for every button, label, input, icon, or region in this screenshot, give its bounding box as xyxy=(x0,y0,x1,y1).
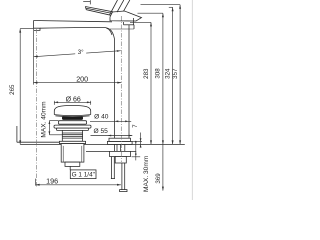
mounting nut xyxy=(110,151,131,156)
arrows MAX40 xyxy=(49,121,51,124)
svg-text:7: 7 xyxy=(132,124,139,128)
dim 200 xyxy=(34,82,122,84)
deck underside xyxy=(86,151,136,153)
drain plate 1 xyxy=(58,121,86,125)
arrows 265 xyxy=(19,29,21,33)
svg-text:265: 265 xyxy=(9,84,16,95)
dimension graphics xyxy=(20,5,180,191)
drain seal (dark) xyxy=(62,116,83,120)
centerline aerator xyxy=(36,29,38,187)
svg-text:MAX. 40mm: MAX. 40mm xyxy=(41,101,48,138)
arrow 357 xyxy=(179,5,181,9)
centerline faucet xyxy=(120,16,122,162)
arrows O40 xyxy=(115,120,119,122)
svg-text:308: 308 xyxy=(155,68,162,79)
dim 324 xyxy=(169,7,173,144)
G 1 1/4 box xyxy=(70,170,96,179)
dim MAX40 xyxy=(49,121,62,135)
dim 3deg xyxy=(34,51,121,57)
arrow 369 bottom xyxy=(162,187,164,191)
drain flange xyxy=(54,125,91,130)
svg-text:MAX. 30mm: MAX. 30mm xyxy=(143,155,150,192)
arrows 7 xyxy=(140,138,142,141)
hose B xyxy=(120,163,127,192)
drain deck slab xyxy=(17,126,59,142)
arrows MAX30 xyxy=(135,141,137,144)
handle lever blade xyxy=(85,0,130,15)
shank tube xyxy=(115,144,125,151)
svg-text:G 1 1/4": G 1 1/4" xyxy=(72,172,95,179)
arrows 200 xyxy=(34,82,38,84)
handle tip tick xyxy=(83,0,90,4)
arrows 3deg xyxy=(34,56,38,58)
arrows O66 xyxy=(54,101,58,103)
arrow 283 top / bottom xyxy=(150,22,152,26)
svg-text:196: 196 xyxy=(46,176,58,185)
dim 196 xyxy=(36,179,121,186)
base plate xyxy=(107,138,132,144)
svg-text:3°: 3° xyxy=(78,49,84,56)
drain lock nut xyxy=(61,144,84,163)
dim 7 xyxy=(132,133,142,148)
arrow 324 xyxy=(172,7,174,11)
dim 308 + 369 line xyxy=(138,13,163,190)
leader O55 xyxy=(91,135,133,137)
hose A xyxy=(111,157,115,179)
G leader xyxy=(69,166,71,170)
svg-text:Ø 55: Ø 55 xyxy=(94,128,109,135)
svg-text:Ø 66: Ø 66 xyxy=(66,96,81,103)
handle pivot cap xyxy=(110,11,142,21)
arrowheads xyxy=(19,5,181,191)
svg-text:Ø 40: Ø 40 xyxy=(94,114,109,121)
deck line xyxy=(20,143,61,145)
svg-text:283: 283 xyxy=(143,68,150,79)
svg-text:369: 369 xyxy=(155,173,162,184)
svg-text:324: 324 xyxy=(165,68,172,79)
drain threaded body xyxy=(62,130,82,141)
faucet body xyxy=(110,18,134,138)
dim O66 xyxy=(54,101,90,105)
dim 283 xyxy=(130,22,151,144)
drain cap xyxy=(54,105,90,116)
arrow 308 top / deck xyxy=(162,13,164,17)
block under nut xyxy=(115,157,126,164)
dim 200 extension xyxy=(33,28,35,84)
svg-text:200: 200 xyxy=(76,74,88,83)
arrows 196 xyxy=(36,184,40,186)
arrows O55 xyxy=(107,135,111,137)
dim 265 xyxy=(20,29,33,145)
drain washer xyxy=(59,141,85,143)
drain tail xyxy=(65,162,80,166)
svg-text:357: 357 xyxy=(172,68,179,79)
leader O40 xyxy=(90,120,131,122)
dim 357 xyxy=(141,5,181,145)
frame line right (faint) xyxy=(191,0,193,200)
label 3deg xyxy=(75,49,86,55)
spout xyxy=(34,21,115,40)
dim MAX30 xyxy=(132,141,141,161)
